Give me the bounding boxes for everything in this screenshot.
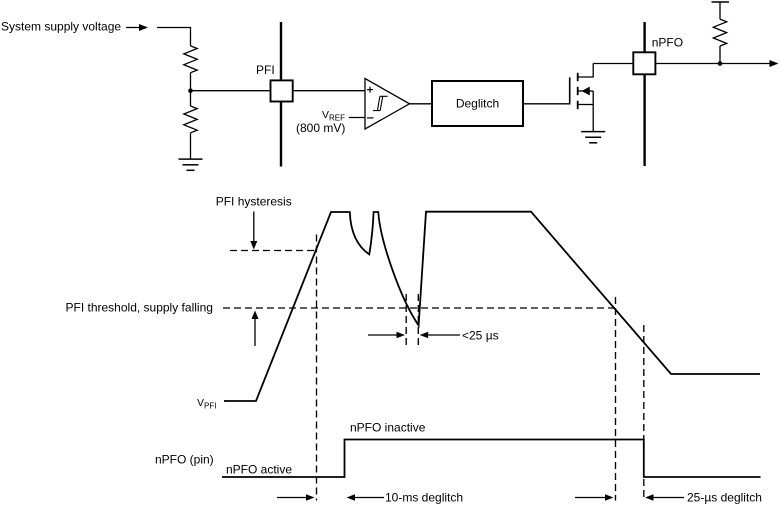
svg-text:<25 µs: <25 µs bbox=[462, 329, 499, 343]
dashed level: hysteresis threshold bbox=[230, 250, 317, 252]
wire: supply to divider bbox=[157, 28, 191, 46]
node A (divider tap) bbox=[188, 88, 193, 93]
wire: VREF to comparator - input bbox=[349, 117, 365, 119]
svg-text:PFI hysteresis: PFI hysteresis bbox=[216, 195, 292, 209]
svg-text:nPFO (pin): nPFO (pin) bbox=[155, 453, 214, 467]
block: Deglitch bbox=[432, 81, 523, 126]
arrow: hysteresis down bbox=[250, 212, 257, 250]
wire: drain rail to nPFO pin bbox=[593, 63, 633, 65]
dashed vertical at glitch crossing bbox=[405, 294, 407, 346]
svg-text:PFI: PFI bbox=[256, 63, 275, 77]
arrow: 25us left bbox=[368, 332, 405, 339]
transistor Q1 (NMOS) bbox=[570, 64, 594, 132]
pin PFI (box) bbox=[271, 80, 293, 101]
pin nPFO (box) bbox=[633, 52, 655, 74]
node B (pull-up junction) bbox=[718, 61, 723, 66]
wire: R2 to ground bbox=[190, 133, 192, 159]
svg-text:10-ms deglitch: 10-ms deglitch bbox=[385, 491, 463, 505]
nPFO pin vertical line bbox=[643, 22, 645, 166]
wire: nPFO output with arrow bbox=[655, 60, 778, 67]
arrow: 25us-deglitch right bbox=[645, 494, 684, 501]
dashed vertical at first threshold crossing bbox=[316, 235, 318, 501]
input arrow bbox=[126, 24, 148, 31]
arrow: 10ms span right bbox=[347, 494, 385, 501]
supply rail bar bbox=[712, 1, 730, 3]
dashed vertical at glitch recovery bbox=[417, 294, 419, 346]
wire: R3 to node B bbox=[719, 46, 721, 64]
resistor R1 bbox=[184, 46, 197, 73]
arrow: 10ms span left bbox=[277, 494, 315, 501]
waveform nPFO bbox=[222, 440, 761, 478]
wire: node to PFI pin bbox=[191, 90, 271, 92]
PFI pin vertical line bbox=[280, 22, 282, 167]
dashed level: PFI falling threshold bbox=[223, 307, 616, 309]
wire: R1 to R2 through node bbox=[190, 73, 192, 106]
svg-text:System supply voltage: System supply voltage bbox=[1, 20, 121, 34]
svg-text:25-µs deglitch: 25-µs deglitch bbox=[687, 491, 762, 505]
svg-text:(800 mV): (800 mV) bbox=[296, 121, 345, 135]
dashed vertical at nPFO assertion bbox=[643, 325, 645, 501]
wire: VPFI label tick bbox=[224, 400, 227, 402]
arrow: 25us-deglitch left bbox=[575, 494, 614, 501]
svg-text:nPFO: nPFO bbox=[652, 36, 683, 50]
resistor R2 bbox=[184, 106, 197, 133]
svg-text:nPFO inactive: nPFO inactive bbox=[350, 421, 426, 435]
arrow: 25us right bbox=[420, 332, 460, 339]
wire: comparator output to Deglitch bbox=[410, 103, 433, 105]
svg-text:nPFO active: nPFO active bbox=[226, 463, 292, 477]
arrow: threshold up bbox=[252, 311, 259, 347]
wire: rail to R3 bbox=[719, 2, 721, 19]
wire: PFI to comparator + input bbox=[293, 90, 365, 92]
resistor R3 (pull-up) bbox=[713, 19, 726, 46]
dashed vertical at supply-fall threshold crossing bbox=[615, 297, 617, 501]
waveform VPFI bbox=[227, 212, 760, 401]
op-amp U1 (comparator with hysteresis) bbox=[365, 79, 410, 130]
svg-text:Deglitch: Deglitch bbox=[456, 97, 499, 111]
ground (Q1 source) bbox=[581, 132, 605, 143]
ground (left divider) bbox=[179, 159, 203, 170]
wire: Deglitch to gate bbox=[523, 103, 570, 105]
svg-text:PFI threshold, supply falling: PFI threshold, supply falling bbox=[66, 301, 213, 315]
